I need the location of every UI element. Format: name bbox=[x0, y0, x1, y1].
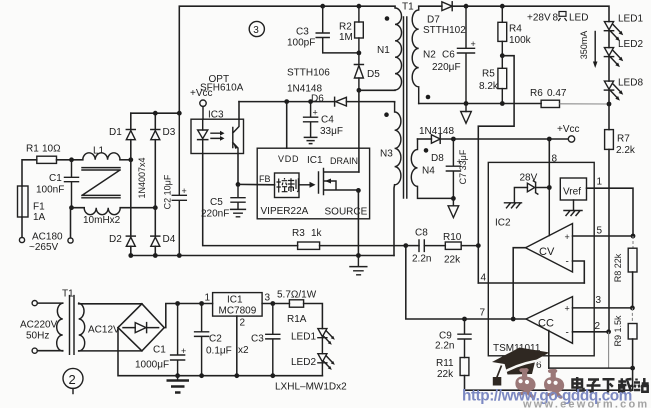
svg-text:2: 2 bbox=[69, 372, 76, 387]
node after R1 bbox=[69, 157, 74, 162]
+Vcc terminal circle bbox=[568, 136, 574, 142]
node pin5 R8 Vref bbox=[631, 234, 636, 239]
secondary bottom rail bbox=[419, 103, 541, 105]
wire R1 to node bbox=[57, 159, 83, 161]
node snubber bottom bbox=[357, 51, 362, 56]
svg-text:0.47: 0.47 bbox=[547, 88, 567, 99]
svg-text:R3: R3 bbox=[292, 228, 305, 239]
node C1 bottom bbox=[175, 373, 180, 378]
node C7 top bbox=[451, 137, 456, 142]
svg-text:4: 4 bbox=[481, 273, 487, 284]
svg-text:LED2: LED2 bbox=[291, 357, 316, 368]
wire R1A to LEDs bbox=[304, 304, 323, 329]
svg-text:3: 3 bbox=[265, 293, 271, 304]
svg-text:8: 8 bbox=[553, 13, 559, 24]
svg-text:T1: T1 bbox=[402, 2, 414, 13]
vcc to CV opamp supply bbox=[548, 188, 550, 236]
svg-text:3: 3 bbox=[253, 25, 259, 36]
wire drain column bbox=[358, 90, 360, 148]
resistor R2 bbox=[358, 6, 360, 22]
resistor R8 bbox=[632, 236, 634, 248]
wire L1 to bridge bottom bbox=[120, 207, 155, 209]
svg-text:LED8: LED8 bbox=[618, 78, 643, 89]
secondary top wire to bridge bbox=[79, 303, 142, 305]
source wire to ground bbox=[357, 190, 359, 256]
svg-text:1M: 1M bbox=[339, 32, 353, 43]
node R4 top bbox=[500, 4, 505, 9]
diode D4 bbox=[151, 235, 160, 237]
svg-text:R9 1.5k: R9 1.5k bbox=[613, 315, 623, 347]
svg-text:D5: D5 bbox=[367, 69, 380, 80]
svg-text:1k: 1k bbox=[311, 228, 323, 239]
diode D7 bbox=[442, 2, 452, 11]
capacitor C7 electrolytic bbox=[446, 139, 460, 198]
svg-text:D2: D2 bbox=[109, 234, 122, 245]
node LED string bottom bbox=[607, 102, 612, 107]
DC bus riser to top rail bbox=[179, 6, 395, 113]
svg-text:1A: 1A bbox=[33, 212, 46, 223]
svg-text:1000μF: 1000μF bbox=[135, 360, 169, 371]
node FB bbox=[236, 182, 241, 187]
svg-text:350mA: 350mA bbox=[579, 31, 589, 60]
Vdd pin wire bbox=[286, 102, 288, 149]
node rail c2 bbox=[177, 253, 182, 258]
opto phototransistor bbox=[233, 119, 239, 153]
svg-text:2.2k: 2.2k bbox=[616, 145, 636, 156]
svg-text:C4: C4 bbox=[321, 115, 334, 126]
node C3 top bbox=[320, 4, 325, 9]
resistor R7 bbox=[608, 104, 610, 130]
capacitor C1 bbox=[65, 160, 79, 208]
wire AC1 to fuse bbox=[21, 217, 23, 237]
svg-text:D8: D8 bbox=[431, 153, 444, 164]
node R3 C8 bbox=[403, 243, 408, 248]
svg-text:VIPER22A: VIPER22A bbox=[261, 206, 309, 217]
svg-text:F1: F1 bbox=[33, 202, 45, 213]
ground hatched at zener bbox=[505, 203, 522, 208]
IC1 MC7809 box bbox=[213, 293, 263, 317]
svg-text:IC2: IC2 bbox=[495, 218, 511, 229]
+28V top rail bbox=[452, 6, 609, 21]
opto LED cathode down to R3 bbox=[203, 154, 298, 246]
node C2 bottom bbox=[199, 373, 204, 378]
LED2 bbox=[604, 48, 613, 56]
wire AC2 up to bottom line bbox=[71, 208, 85, 238]
optocoupler +Vcc terminal bbox=[200, 100, 206, 106]
capacitor C2 electrolytic bbox=[172, 113, 186, 255]
resistor R6 bbox=[541, 100, 559, 107]
svg-text:1N4007x4: 1N4007x4 bbox=[137, 157, 147, 198]
node L1 top at bridge bbox=[128, 157, 133, 162]
node source bbox=[356, 188, 361, 193]
svg-text:MC7809: MC7809 bbox=[219, 306, 257, 317]
svg-text:7: 7 bbox=[480, 308, 486, 319]
ground rail pin6 bbox=[549, 367, 633, 369]
svg-text:R8 22k: R8 22k bbox=[613, 253, 623, 282]
transformer T1 winding N2 bbox=[412, 6, 418, 103]
svg-text:22k: 22k bbox=[437, 369, 454, 380]
watermark graduation cap bbox=[492, 348, 550, 386]
resistor R9 bbox=[631, 308, 633, 324]
svg-text:R7: R7 bbox=[617, 134, 630, 145]
svg-text:R4: R4 bbox=[509, 24, 522, 35]
svg-text:C6: C6 bbox=[442, 50, 455, 61]
svg-text:2: 2 bbox=[240, 318, 246, 329]
svg-text:R1: R1 bbox=[26, 144, 39, 155]
svg-text:+: + bbox=[182, 186, 187, 196]
wire N3 bottom to ground rail bbox=[393, 185, 396, 256]
svg-text:220nF: 220nF bbox=[201, 209, 229, 220]
CC plus input line pin3 bbox=[573, 307, 633, 309]
+Vcc line bbox=[440, 138, 568, 140]
node Vdd pin bbox=[284, 99, 289, 104]
node C9 tap bbox=[462, 317, 467, 322]
circled 3 block label bbox=[249, 21, 264, 36]
optocoupler IC3 box bbox=[191, 119, 244, 153]
wire Vcc to opto LED bbox=[202, 106, 204, 119]
node bridge top D3 bbox=[153, 111, 158, 116]
svg-text:1N4148: 1N4148 bbox=[419, 126, 454, 137]
node bridge top riser bbox=[177, 111, 182, 116]
svg-text:FB: FB bbox=[259, 174, 271, 184]
ground below C4 bbox=[304, 137, 316, 143]
svg-text:T1: T1 bbox=[62, 289, 74, 300]
ground below C5 bbox=[231, 209, 246, 216]
svg-text:+Vcc: +Vcc bbox=[190, 88, 213, 99]
glyph kongzhi control bbox=[277, 178, 299, 193]
diode D1 bbox=[126, 129, 135, 131]
svg-text:8: 8 bbox=[552, 154, 558, 165]
bridge diamond bbox=[118, 304, 164, 351]
LED1 lower bbox=[318, 329, 327, 337]
N2 polarity dot bbox=[426, 95, 431, 100]
drain inside wire bbox=[358, 148, 360, 172]
glyph zhi bbox=[558, 12, 566, 22]
secondary ground triangle at C7 bbox=[452, 198, 454, 205]
svg-text:R11: R11 bbox=[436, 358, 454, 369]
bridge top rail bbox=[131, 112, 180, 114]
IC1 VIPER22A box bbox=[257, 148, 369, 219]
diode D6 bbox=[334, 97, 336, 106]
svg-text:+: + bbox=[565, 304, 570, 314]
wire L1 to bridge top bbox=[120, 159, 131, 161]
svg-text:V D D: V D D bbox=[278, 154, 299, 164]
diode D2 bbox=[126, 235, 135, 237]
svg-text:C2: C2 bbox=[209, 334, 222, 345]
chassis ground lower bbox=[167, 381, 190, 393]
AC220V terminal bottom bbox=[32, 348, 37, 353]
wire N2 top to D7 bbox=[419, 5, 442, 7]
svg-text:C5: C5 bbox=[210, 197, 223, 208]
secondary bottom wire to bridge bbox=[79, 350, 142, 352]
svg-text:~265V: ~265V bbox=[29, 242, 59, 253]
svg-text:+: + bbox=[565, 232, 570, 242]
CC op-amp bbox=[526, 297, 573, 344]
node C3 bottom bbox=[270, 373, 275, 378]
svg-text:D1: D1 bbox=[109, 127, 122, 138]
capacitor C3 bbox=[316, 6, 359, 53]
pin4 line bbox=[478, 282, 584, 284]
watermark chong 2 bbox=[544, 369, 564, 399]
divider sense path to pin4 bbox=[478, 56, 514, 283]
transformer T1 winding N1 bbox=[395, 6, 402, 90]
IC2 TSM1011 box bbox=[488, 162, 594, 355]
pin3 wire bbox=[262, 303, 289, 305]
T1 lower core bbox=[70, 296, 75, 355]
FB wire bbox=[238, 183, 275, 185]
svg-text:2: 2 bbox=[595, 321, 601, 332]
node C7 bottom bbox=[451, 196, 456, 201]
svg-text:10mHx2: 10mHx2 bbox=[83, 215, 121, 226]
svg-text:+: + bbox=[471, 39, 476, 49]
svg-text:+28V: +28V bbox=[527, 13, 551, 24]
svg-text:C7 33μF: C7 33μF bbox=[458, 149, 468, 184]
bridge left leg wire bbox=[130, 113, 132, 255]
DC minus rail bbox=[118, 328, 322, 376]
opto emitter to FB node bbox=[237, 154, 239, 185]
node C1 top bbox=[175, 301, 180, 306]
wire R6 to LED string faint bbox=[560, 103, 610, 105]
pin2 to ground rail faint bbox=[608, 332, 610, 368]
svg-text:C3: C3 bbox=[251, 334, 264, 345]
wire drain to N1 bottom bbox=[359, 89, 395, 91]
opto collector to Vdd line bbox=[238, 102, 240, 120]
node CV out pin7 bbox=[511, 317, 516, 322]
N1 polarity dot bbox=[385, 16, 390, 21]
svg-text:L1: L1 bbox=[93, 146, 105, 157]
svg-text:R2: R2 bbox=[339, 22, 352, 33]
node R10 pin4 column bbox=[476, 243, 481, 248]
CC minus line pin2 bbox=[573, 331, 609, 333]
watermark text dian zi xia zai zhan bbox=[573, 377, 649, 393]
svg-text:-: - bbox=[566, 328, 569, 339]
svg-text:AC12V: AC12V bbox=[88, 325, 120, 336]
aux supply line to N3 bbox=[239, 101, 395, 103]
svg-text:R6: R6 bbox=[530, 88, 543, 99]
svg-text:-: - bbox=[566, 257, 569, 268]
node C1 bottom bbox=[69, 205, 74, 210]
svg-text:LED2: LED2 bbox=[618, 39, 643, 50]
capacitor C8 bbox=[406, 245, 419, 247]
svg-text:SOURCE: SOURCE bbox=[325, 207, 368, 218]
rail link down bbox=[632, 368, 634, 390]
LED string wire bbox=[608, 31, 610, 104]
LED8 bbox=[604, 81, 613, 89]
CV op-amp bbox=[526, 224, 573, 273]
resistor R3 bbox=[298, 242, 320, 249]
opto LED bbox=[202, 119, 204, 130]
node R4 R5 divider bbox=[500, 53, 505, 58]
svg-text:C1: C1 bbox=[49, 173, 62, 184]
svg-text:DRAIN: DRAIN bbox=[330, 156, 358, 166]
diode inside diamond bbox=[123, 327, 159, 329]
transformer T1 core bbox=[404, 17, 407, 198]
svg-text:CC: CC bbox=[538, 318, 554, 330]
ground hatched at Vref bbox=[564, 200, 582, 216]
control block FB bbox=[275, 173, 300, 198]
wires to T1 primary bbox=[37, 303, 62, 351]
node pin3 R8 R9 bbox=[630, 306, 635, 311]
R7 column down to pin2 bbox=[608, 149, 610, 331]
node zener vcc bbox=[547, 185, 552, 190]
node pin8 tap bbox=[547, 137, 552, 142]
svg-text:AC180: AC180 bbox=[32, 232, 63, 243]
svg-text:8.2k: 8.2k bbox=[479, 81, 499, 92]
AC220V terminal top bbox=[32, 301, 37, 306]
svg-text:N2: N2 bbox=[423, 50, 436, 61]
svg-text:AC220V: AC220V bbox=[20, 320, 58, 331]
svg-text:CV: CV bbox=[539, 246, 555, 258]
N3 polarity dot bbox=[384, 112, 389, 117]
svg-text:5: 5 bbox=[597, 226, 603, 237]
svg-text:IC1: IC1 bbox=[227, 295, 243, 306]
svg-text:LED: LED bbox=[569, 13, 588, 24]
pin7 net wire bbox=[406, 246, 526, 319]
svg-text:R10: R10 bbox=[443, 232, 462, 243]
capacitor C1 1000uF bbox=[171, 304, 185, 376]
wire fuse to R1 bbox=[22, 160, 37, 186]
svg-text:+: + bbox=[181, 346, 186, 356]
node pin2 bbox=[606, 329, 611, 334]
svg-text:STTH102: STTH102 bbox=[423, 25, 466, 36]
svg-text:D4: D4 bbox=[163, 234, 176, 245]
capacitor C4 electrolytic bbox=[304, 102, 318, 137]
svg-text:33μF: 33μF bbox=[320, 126, 343, 137]
transformer T1 winding N4 bbox=[411, 139, 453, 198]
svg-text:LXHL–MW1Dx2: LXHL–MW1Dx2 bbox=[275, 382, 347, 393]
R11 to bottom rail bbox=[465, 376, 633, 391]
N4 polarity dot bbox=[424, 148, 429, 153]
svg-text:+: + bbox=[313, 108, 318, 118]
AC input terminal bottom bbox=[68, 238, 73, 243]
svg-text:10Ω: 10Ω bbox=[42, 144, 61, 155]
svg-text:22k: 22k bbox=[444, 255, 461, 266]
opto light arrows bbox=[211, 133, 220, 138]
svg-text:100pF: 100pF bbox=[287, 38, 315, 49]
LED2 lower bbox=[318, 354, 327, 362]
node rail d2 bbox=[128, 253, 133, 258]
diode D5 bbox=[354, 53, 363, 65]
svg-text:LED1: LED1 bbox=[618, 14, 643, 25]
pin1 wire Vref bbox=[587, 188, 634, 236]
svg-text:D6: D6 bbox=[311, 94, 324, 105]
svg-text:N3: N3 bbox=[380, 149, 393, 160]
watermark chong 1 bbox=[515, 368, 535, 398]
svg-text:5.7Ω/1W: 5.7Ω/1W bbox=[277, 290, 317, 301]
svg-text:100nF: 100nF bbox=[36, 185, 64, 196]
transformer T1 winding N3 bbox=[395, 102, 401, 185]
svg-text:220μF: 220μF bbox=[432, 62, 461, 73]
wire R3 to node bbox=[320, 245, 406, 247]
svg-text:C3: C3 bbox=[296, 27, 309, 38]
capacitor C6 electrolytic bbox=[458, 6, 475, 103]
svg-text:D7: D7 bbox=[427, 15, 440, 26]
CV minus feedback bbox=[573, 261, 585, 283]
T1 lower primary winding bbox=[57, 303, 63, 351]
resistor R1A bbox=[289, 300, 303, 307]
fuse F1 bbox=[18, 186, 29, 217]
secondary ground triangle at C6 bbox=[465, 104, 467, 112]
svg-text:N4: N4 bbox=[422, 166, 435, 177]
svg-text:C1: C1 bbox=[153, 345, 166, 356]
svg-text:0.1μF: 0.1μF bbox=[206, 346, 232, 357]
LED1 bbox=[604, 22, 613, 30]
svg-text:D3: D3 bbox=[163, 127, 176, 138]
node rail d4 bbox=[153, 253, 158, 258]
wire N4 top to D8 bbox=[418, 138, 432, 140]
node R5 bottom bbox=[500, 101, 505, 106]
svg-text:28V: 28V bbox=[520, 173, 538, 184]
resistor R10 bbox=[445, 242, 461, 249]
svg-text:STTH106: STTH106 bbox=[287, 68, 330, 79]
svg-text:N1: N1 bbox=[377, 45, 390, 56]
node C3 top bbox=[270, 301, 275, 306]
DC plus riser bbox=[164, 304, 212, 328]
svg-text:2.2n: 2.2n bbox=[435, 341, 454, 352]
node pin2 bottom bbox=[234, 373, 239, 378]
pin6 wire bbox=[548, 331, 550, 369]
bridge right leg wire bbox=[154, 113, 156, 255]
node drain junction bbox=[357, 88, 362, 93]
svg-text:2.2n: 2.2n bbox=[412, 254, 431, 265]
capacitor C9 bbox=[458, 319, 471, 358]
circled 2 block label bbox=[63, 368, 83, 388]
CV plus input line pin5 bbox=[573, 235, 633, 237]
svg-text:R1A: R1A bbox=[287, 314, 307, 325]
Vref box bbox=[560, 178, 586, 200]
node source ground rail bbox=[356, 253, 361, 258]
capacitor C5 bbox=[231, 184, 245, 209]
T1 lower secondary winding bbox=[79, 303, 85, 351]
350mA arrow bbox=[594, 32, 596, 63]
svg-text:www.eeworm.com: www.eeworm.com bbox=[522, 399, 649, 408]
svg-text:+Vcc: +Vcc bbox=[557, 124, 580, 135]
svg-text:Vref: Vref bbox=[563, 187, 581, 198]
arrow control to gate bbox=[299, 184, 310, 186]
svg-text:C8: C8 bbox=[415, 228, 428, 239]
primary ground rail bbox=[131, 255, 394, 257]
zener 28V bbox=[533, 181, 549, 194]
L1 core bbox=[82, 168, 120, 198]
svg-text:LED1: LED1 bbox=[291, 332, 316, 343]
capacitor C3 bbox=[266, 304, 280, 376]
node R9 bottom rail bbox=[630, 366, 635, 371]
diode D8 bbox=[431, 135, 440, 144]
svg-text:3: 3 bbox=[596, 295, 602, 306]
CV output wire bbox=[513, 248, 525, 319]
inductor L1 bottom winding bbox=[84, 208, 120, 215]
svg-text:50Hz: 50Hz bbox=[26, 331, 49, 342]
pin2 wire bbox=[236, 316, 238, 376]
svg-text:R5: R5 bbox=[482, 69, 495, 80]
capacitor C2 0.1uF bbox=[195, 304, 209, 376]
svg-text:IC1: IC1 bbox=[307, 155, 323, 166]
svg-text:IC3: IC3 bbox=[208, 110, 224, 121]
svg-text:C2 10μF: C2 10μF bbox=[163, 174, 173, 209]
pin8 Vcc wire bbox=[548, 139, 550, 188]
node L1 bottom at bridge bbox=[153, 205, 158, 210]
node C4 top bbox=[308, 99, 313, 104]
primary ground symbol bbox=[350, 256, 367, 275]
svg-text:x2: x2 bbox=[238, 345, 249, 356]
resistor R11 bbox=[460, 358, 469, 376]
resistor R4 bbox=[501, 6, 503, 22]
resistor R1 bbox=[37, 156, 57, 163]
resistor R5 bbox=[501, 56, 503, 69]
diode D3 bbox=[151, 129, 160, 131]
inductor L1 top winding bbox=[83, 153, 120, 160]
svg-text:1: 1 bbox=[597, 177, 603, 188]
